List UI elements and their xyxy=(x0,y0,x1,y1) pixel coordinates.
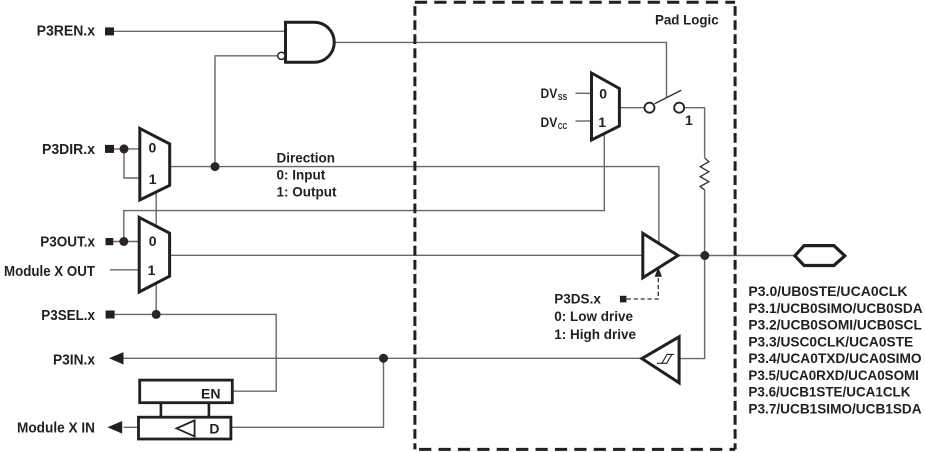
wire resistor to pad node xyxy=(704,190,706,256)
node pad junction xyxy=(700,251,709,260)
inverter bubble on AND input xyxy=(278,52,285,59)
svg-text:P3.7/UCB1SIMO/UCB1SDA: P3.7/UCB1SIMO/UCB1SDA xyxy=(748,400,921,416)
EN latch box xyxy=(140,380,233,403)
wire AND inverted input from Direction node xyxy=(215,56,278,167)
EN latch right leg xyxy=(208,402,211,419)
svg-text:P3.5/UCA0RXD/UCA0SOMI: P3.5/UCA0RXD/UCA0SOMI xyxy=(748,367,919,383)
svg-text:DV: DV xyxy=(541,86,558,101)
svg-text:0: Input: 0: Input xyxy=(277,168,326,183)
square terminal P3REN.x xyxy=(105,27,114,35)
node P3SEL junction xyxy=(152,310,161,319)
node P3IN junction xyxy=(379,354,388,363)
wire Module X OUT to mux input 1 xyxy=(110,269,139,271)
P3DS.x drive strength dashed control xyxy=(627,277,659,299)
svg-text:CC: CC xyxy=(558,121,567,131)
svg-text:0: 0 xyxy=(149,233,157,249)
square terminal P3DS.x xyxy=(620,296,627,303)
switch blade xyxy=(655,90,682,104)
svg-text:1: 1 xyxy=(148,262,156,278)
svg-text:Direction: Direction xyxy=(277,150,336,165)
mux DVss/DVcc (pull resistor supply select) xyxy=(592,73,620,140)
wire P3OUT.x pull-select to DVss/DVcc mux select xyxy=(124,134,605,242)
node P3DIR input junction xyxy=(120,144,129,153)
svg-text:1: Output: 1: Output xyxy=(277,184,337,199)
svg-text:P3OUT.x: P3OUT.x xyxy=(40,234,95,251)
svg-text:SS: SS xyxy=(558,92,568,102)
svg-text:P3IN.x: P3IN.x xyxy=(53,351,96,368)
output driver buffer xyxy=(643,233,678,277)
wire P3IN tap to D latch input xyxy=(231,358,384,427)
svg-text:P3SEL.x: P3SEL.x xyxy=(41,307,95,324)
svg-text:Pad Logic: Pad Logic xyxy=(655,11,719,27)
svg-text:P3.3/USC0CLK/UCA0STE: P3.3/USC0CLK/UCA0STE xyxy=(748,333,913,349)
svg-text:DV: DV xyxy=(541,115,558,130)
svg-text:P3.2/UCB0SOMI/UCB0SCL: P3.2/UCB0SOMI/UCB0SCL xyxy=(748,317,922,333)
arrowhead of P3DS control xyxy=(655,267,662,276)
svg-text:P3.4/UCA0TXD/UCA0SIMO: P3.4/UCA0TXD/UCA0SIMO xyxy=(748,350,921,366)
wire switch to resistor xyxy=(684,108,705,158)
svg-text:Module X IN: Module X IN xyxy=(17,419,95,436)
arrow P3IN.x output xyxy=(109,352,124,364)
mux P3OUT (output select) xyxy=(139,217,169,292)
square terminal P3DIR.x xyxy=(105,145,114,153)
square terminal P3OUT.x xyxy=(106,238,114,245)
svg-text:0: 0 xyxy=(599,85,607,101)
wire mux select from P3SEL node (under muxes) xyxy=(155,194,157,315)
hysteresis symbol xyxy=(657,354,674,363)
wire P3DIR.x to mux input 0 xyxy=(114,148,140,150)
svg-text:1: 1 xyxy=(149,171,157,187)
svg-text:1: High drive: 1: High drive xyxy=(554,327,636,342)
Pad Logic dashed box xyxy=(415,1,735,4)
pad hexagon xyxy=(795,246,845,266)
Schmitt trigger input buffer xyxy=(642,337,679,383)
wire P3DIR.x branch to mux input 1 xyxy=(124,149,140,178)
mux P3DIR (direction select) xyxy=(140,128,170,200)
D latch box xyxy=(139,417,231,439)
wire driver output to pad xyxy=(678,255,795,257)
wire DV mux output to switch xyxy=(619,107,645,109)
svg-text:P3.0/UB0STE/UCA0CLK: P3.0/UB0STE/UCA0CLK xyxy=(748,283,907,299)
svg-text:0: 0 xyxy=(149,139,157,155)
wire pad node to Schmitt trigger input xyxy=(679,256,705,359)
svg-text:0: Low drive: 0: Low drive xyxy=(554,309,633,324)
wire AND output to switch control xyxy=(334,42,667,97)
wire P3REN.x to AND gate input xyxy=(114,30,286,32)
wire P3SEL.x to EN latch xyxy=(112,314,276,391)
wire P3OUT mux output to driver xyxy=(170,254,643,256)
svg-text:1: 1 xyxy=(598,114,606,130)
D latch clock triangle xyxy=(177,420,195,436)
AND gate U1 xyxy=(286,22,335,62)
wire P3OUT.x to mux input 0 xyxy=(113,241,139,243)
wire DVss stub xyxy=(576,92,592,94)
svg-text:P3.6/UCB1STE/UCA1CLK: P3.6/UCB1STE/UCA1CLK xyxy=(748,384,910,400)
svg-text:P3DS.x: P3DS.x xyxy=(554,292,601,307)
wire P3IN.x from Schmitt trigger output xyxy=(124,357,643,359)
node P3OUT input junction xyxy=(119,237,128,246)
svg-text:D: D xyxy=(209,421,219,437)
switch circle left xyxy=(645,103,655,113)
wire DVcc stub xyxy=(576,120,592,122)
resistor (pullup/pulldown) xyxy=(700,158,709,190)
arrow Module X IN output xyxy=(107,421,122,434)
svg-text:P3DIR.x: P3DIR.x xyxy=(42,141,96,158)
svg-text:P3REN.x: P3REN.x xyxy=(37,23,96,40)
svg-text:P3.1/UCB0SIMO/UCB0SDA: P3.1/UCB0SIMO/UCB0SDA xyxy=(748,300,922,316)
wire Direction line to output driver enable xyxy=(170,167,659,244)
node Direction junction xyxy=(211,162,220,171)
wire D latch output to Module X IN xyxy=(124,426,139,428)
svg-text:1: 1 xyxy=(685,112,693,128)
EN latch left leg xyxy=(160,402,163,419)
svg-text:EN: EN xyxy=(201,385,220,401)
svg-text:Module X OUT: Module X OUT xyxy=(4,263,95,280)
square terminal P3SEL.x xyxy=(106,311,115,319)
switch circle right xyxy=(674,103,684,113)
